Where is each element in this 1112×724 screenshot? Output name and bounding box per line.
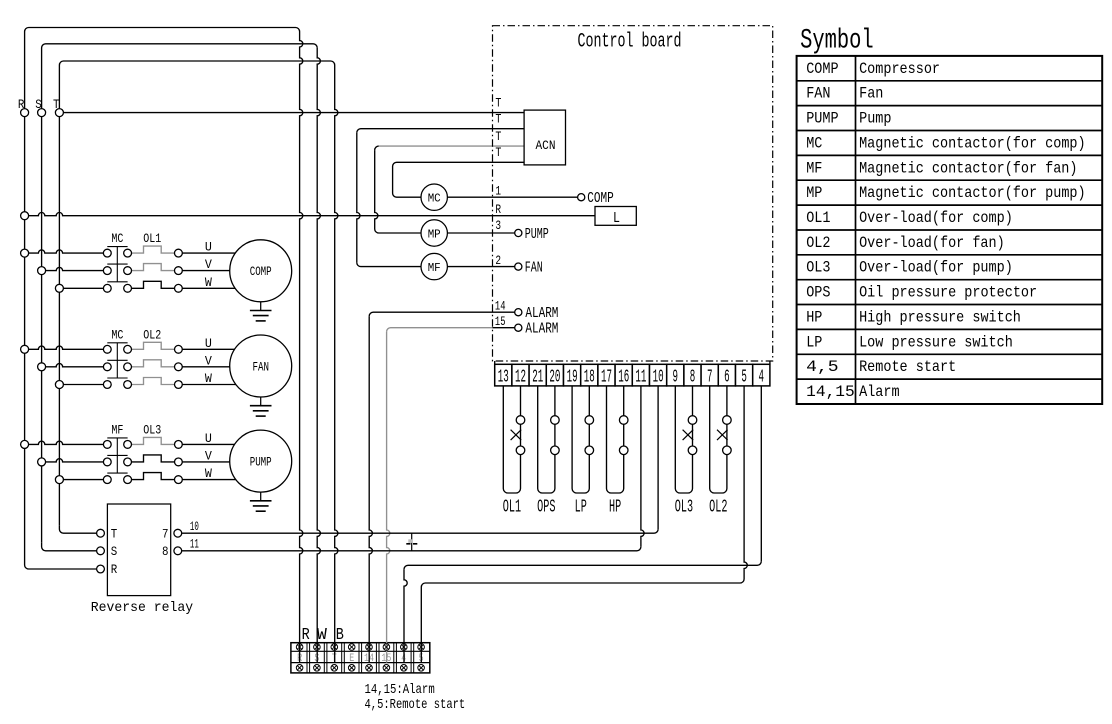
- svg-text:5: 5: [741, 368, 747, 388]
- svg-text:E: E: [349, 653, 354, 665]
- svg-text:16: 16: [618, 368, 629, 388]
- svg-text:HP: HP: [806, 308, 822, 326]
- svg-text:R: R: [18, 98, 25, 112]
- svg-text:L: L: [613, 210, 620, 227]
- svg-text:W: W: [205, 275, 212, 290]
- svg-text:R: R: [495, 202, 501, 217]
- svg-text:OL3: OL3: [675, 498, 693, 518]
- svg-text:T: T: [111, 526, 118, 541]
- svg-text:MC: MC: [806, 134, 822, 152]
- svg-text:MC: MC: [111, 231, 123, 246]
- svg-text:LP: LP: [806, 333, 822, 351]
- svg-text:FAN: FAN: [806, 85, 830, 103]
- svg-text:COMP: COMP: [806, 60, 838, 78]
- svg-text:OL2: OL2: [709, 498, 727, 518]
- svg-text:T: T: [495, 95, 501, 110]
- svg-text:U: U: [205, 336, 212, 351]
- svg-text:T: T: [53, 98, 60, 112]
- svg-text:2: 2: [495, 253, 501, 268]
- svg-text:HP: HP: [609, 498, 621, 518]
- svg-text:Over-load(for comp): Over-load(for comp): [859, 209, 1013, 227]
- svg-text:PUMP: PUMP: [806, 110, 838, 128]
- svg-text:Alarm: Alarm: [859, 383, 900, 401]
- svg-text:1: 1: [495, 184, 501, 199]
- svg-text:High pressure switch: High pressure switch: [859, 308, 1021, 326]
- svg-text:T: T: [495, 111, 501, 126]
- svg-text:S: S: [35, 98, 42, 112]
- svg-text:OPS: OPS: [537, 498, 555, 518]
- svg-text:MC: MC: [428, 192, 441, 206]
- svg-text:12: 12: [515, 368, 526, 388]
- svg-text:19: 19: [567, 368, 578, 388]
- svg-text:U: U: [205, 431, 212, 446]
- svg-text:OL2: OL2: [143, 327, 161, 342]
- svg-text:W: W: [205, 371, 212, 386]
- svg-text:MF: MF: [111, 422, 123, 437]
- svg-text:4,5:Remote start: 4,5:Remote start: [365, 697, 466, 713]
- svg-text:Over-load(for fan): Over-load(for fan): [859, 234, 1005, 252]
- svg-text:OL2: OL2: [806, 234, 830, 252]
- svg-text:21: 21: [532, 368, 543, 388]
- svg-text:V: V: [205, 257, 212, 272]
- svg-text:Low pressure switch: Low pressure switch: [859, 333, 1013, 351]
- svg-text:R: R: [302, 625, 310, 644]
- svg-text:6: 6: [724, 368, 730, 388]
- svg-text:Reverse relay: Reverse relay: [91, 600, 193, 616]
- svg-text:S: S: [111, 544, 118, 559]
- svg-text:ACN: ACN: [536, 138, 556, 153]
- svg-text:14: 14: [495, 299, 506, 314]
- svg-text:4,5: 4,5: [806, 358, 838, 376]
- svg-text:11: 11: [190, 538, 199, 552]
- svg-text:14,15:Alarm: 14,15:Alarm: [365, 682, 435, 698]
- svg-text:COMP: COMP: [250, 264, 272, 279]
- svg-text:FAN: FAN: [525, 261, 543, 277]
- svg-text:7: 7: [707, 368, 713, 388]
- svg-text:MF: MF: [806, 159, 822, 177]
- svg-text:V: V: [205, 448, 212, 463]
- svg-text:7: 7: [162, 526, 169, 541]
- svg-text:15: 15: [495, 314, 506, 329]
- svg-text:MP: MP: [806, 184, 822, 202]
- svg-text:OPS: OPS: [806, 284, 830, 302]
- svg-text:Remote start: Remote start: [859, 358, 956, 376]
- svg-text:Fan: Fan: [859, 85, 883, 103]
- svg-text:W: W: [317, 625, 327, 644]
- svg-text:17: 17: [601, 368, 612, 388]
- svg-text:3: 3: [495, 218, 501, 233]
- svg-text:14,15: 14,15: [806, 383, 855, 401]
- svg-text:20: 20: [549, 368, 560, 388]
- svg-text:B: B: [336, 625, 344, 644]
- svg-text:U: U: [205, 240, 212, 255]
- svg-text:MP: MP: [428, 227, 441, 241]
- svg-text:Magnetic contactor(for comp): Magnetic contactor(for comp): [859, 134, 1086, 152]
- svg-text:Control board: Control board: [578, 31, 682, 54]
- svg-text:10: 10: [190, 520, 199, 534]
- svg-text:Compressor: Compressor: [859, 60, 940, 78]
- svg-text:11: 11: [635, 368, 646, 388]
- svg-text:PUMP: PUMP: [525, 227, 549, 243]
- svg-text:4: 4: [759, 368, 765, 388]
- svg-text:COMP: COMP: [587, 191, 614, 207]
- svg-text:R: R: [111, 562, 118, 577]
- svg-text:T: T: [495, 129, 501, 144]
- svg-text:Magnetic contactor(for fan): Magnetic contactor(for fan): [859, 159, 1077, 177]
- svg-text:MF: MF: [428, 261, 441, 275]
- svg-text:OL3: OL3: [806, 259, 830, 277]
- svg-text:T: T: [495, 145, 501, 160]
- svg-text:ALARM: ALARM: [525, 322, 558, 338]
- svg-text:9: 9: [673, 368, 679, 388]
- svg-text:OL3: OL3: [143, 422, 161, 437]
- svg-text:18: 18: [584, 368, 595, 388]
- svg-text:LP: LP: [575, 498, 587, 518]
- svg-text:FAN: FAN: [252, 359, 269, 374]
- svg-text:Oil pressure protector: Oil pressure protector: [859, 284, 1037, 302]
- svg-text:OL1: OL1: [806, 209, 830, 227]
- svg-text:8: 8: [162, 544, 169, 559]
- svg-text:PUMP: PUMP: [250, 455, 272, 470]
- svg-text:Pump: Pump: [859, 110, 891, 128]
- svg-text:MC: MC: [111, 327, 123, 342]
- svg-text:OL1: OL1: [143, 231, 161, 246]
- svg-text:8: 8: [690, 368, 696, 388]
- svg-text:Symbol: Symbol: [800, 25, 874, 56]
- svg-text:Over-load(for pump): Over-load(for pump): [859, 259, 1013, 277]
- svg-text:Magnetic contactor(for pump): Magnetic contactor(for pump): [859, 184, 1086, 202]
- svg-text:OL1: OL1: [503, 498, 521, 518]
- svg-text:V: V: [205, 353, 212, 368]
- svg-text:13: 13: [498, 368, 509, 388]
- svg-text:W: W: [205, 466, 212, 481]
- svg-text:10: 10: [653, 368, 664, 388]
- svg-text:ALARM: ALARM: [525, 306, 558, 322]
